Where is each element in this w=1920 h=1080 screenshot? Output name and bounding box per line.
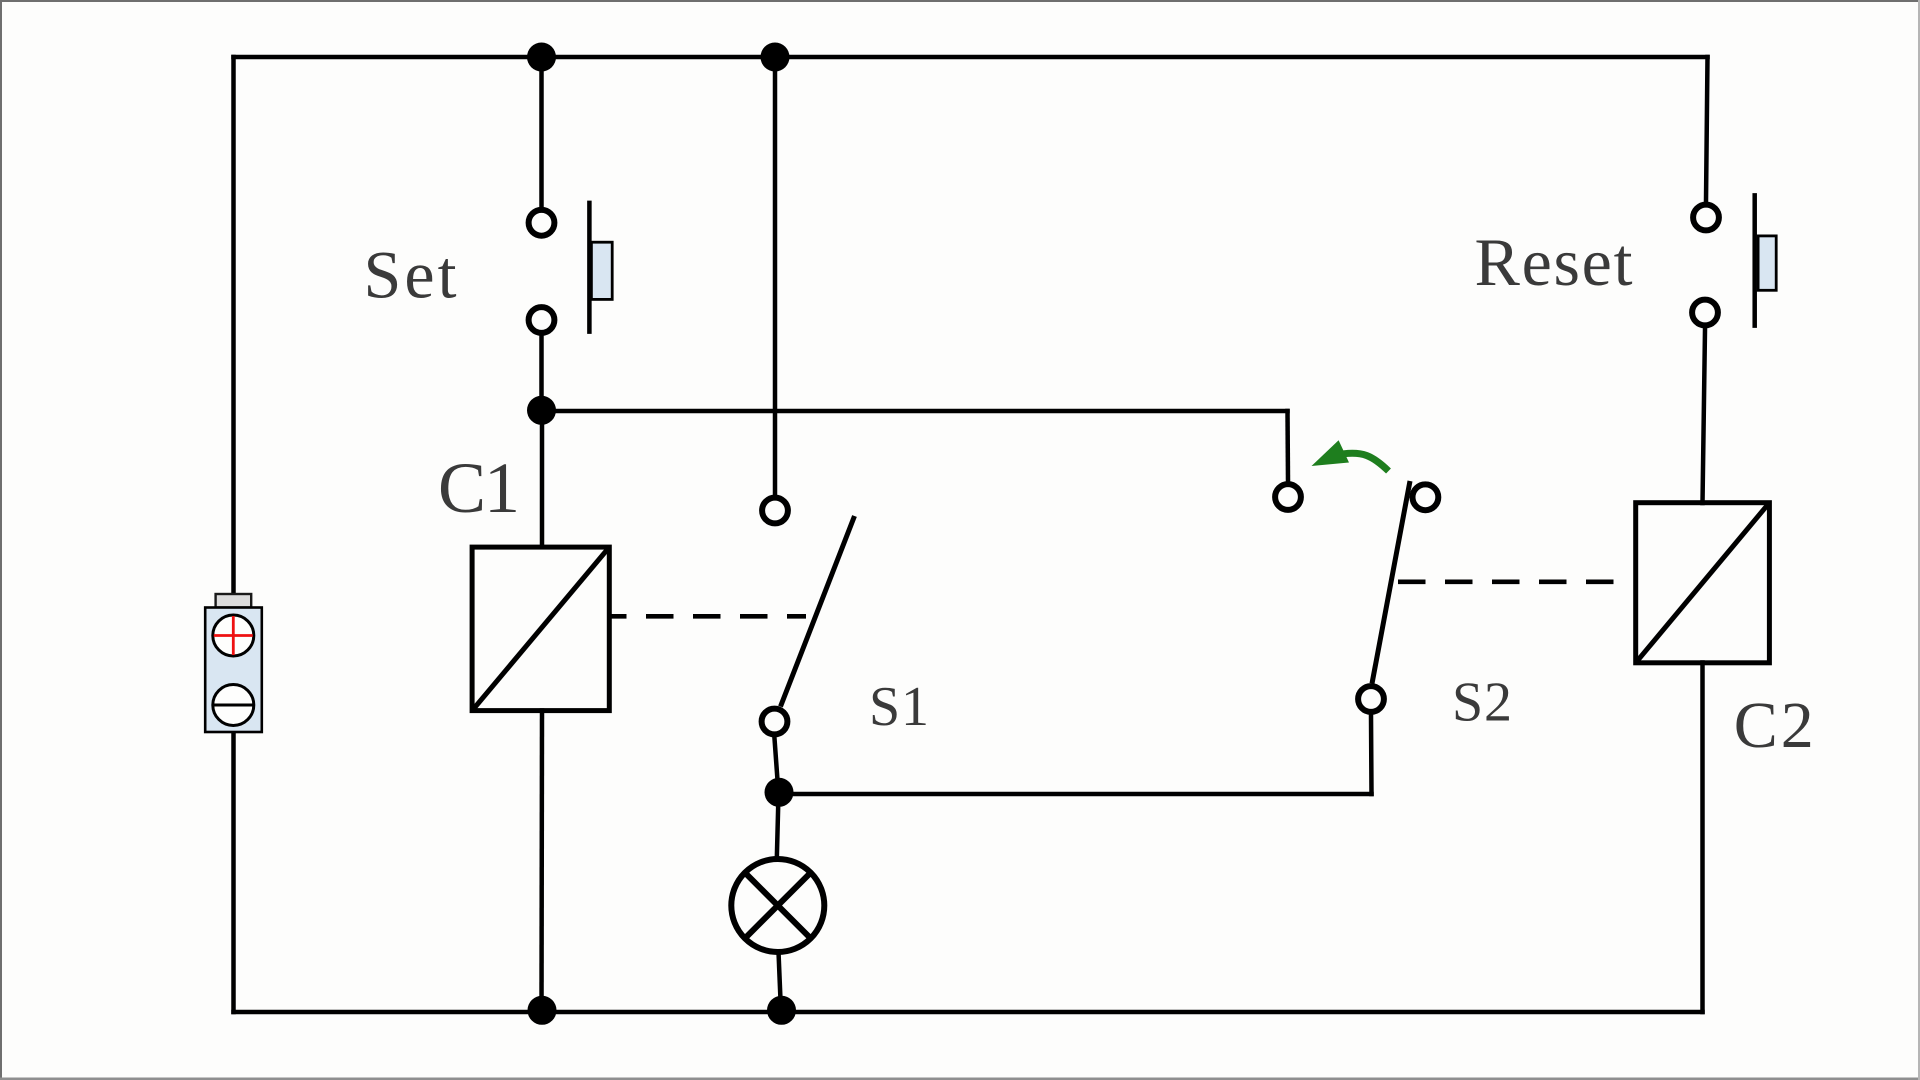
relay coil C2	[1636, 503, 1770, 663]
svg-text:S2: S2	[1452, 672, 1512, 734]
node bottom bus / C1	[528, 996, 557, 1025]
battery	[205, 594, 262, 732]
wire node row S1 to S2	[779, 792, 1372, 797]
Reset upper contact	[1693, 205, 1719, 231]
battery body	[205, 608, 262, 733]
wire S1 branch	[773, 57, 778, 494]
wire lamp to bottom bus	[779, 952, 782, 1012]
wire Set junction to C1	[540, 410, 545, 547]
wire right bus to Reset	[1706, 57, 1708, 201]
battery positive terminal	[213, 615, 254, 656]
wire C2 to bottom bus	[1700, 663, 1705, 1013]
node Set junction	[527, 396, 556, 425]
wire C1 to bottom bus	[539, 711, 544, 1013]
wire S2 pole drop	[1369, 716, 1374, 795]
wire Reset to C2	[1703, 330, 1706, 504]
Reset actuator bar	[1752, 193, 1757, 328]
wire Set junction to S2 throw	[542, 409, 1288, 414]
S2 left throw contact	[1275, 484, 1301, 510]
svg-text:Reset: Reset	[1475, 224, 1633, 300]
lamp cross	[746, 874, 810, 938]
wire bottom bus	[234, 1010, 1703, 1015]
mechanical link C1 to S1 (dashed)	[610, 614, 806, 619]
switch S2	[1275, 481, 1438, 712]
Set button cap	[591, 242, 612, 299]
S1 pole contact	[762, 709, 788, 735]
battery cap	[216, 594, 252, 608]
relay coil C1	[472, 547, 609, 711]
pushbutton Set	[529, 201, 613, 334]
battery negative terminal	[213, 685, 254, 726]
wire Set branch lower	[539, 337, 544, 410]
node bottom bus / lamp	[767, 996, 796, 1025]
S2 arm	[1372, 481, 1410, 684]
wire S2 throw drop	[1285, 411, 1290, 481]
green actuation arrow (S2 moves to left contact)	[1312, 440, 1389, 471]
svg-text:S1: S1	[869, 676, 929, 738]
Reset button cap	[1758, 236, 1776, 290]
Set lower contact	[529, 307, 555, 333]
S1 arm	[781, 516, 855, 707]
Set upper contact	[529, 210, 555, 236]
pushbutton Reset	[1692, 193, 1776, 328]
Reset lower contact	[1692, 300, 1718, 326]
svg-text:C2: C2	[1734, 689, 1814, 762]
wire Set branch upper	[539, 57, 544, 206]
svg-text:Set: Set	[364, 237, 457, 313]
S2 pole contact	[1358, 686, 1384, 712]
lamp bulb circle	[731, 859, 824, 952]
node top bus / S1 branch	[761, 43, 790, 72]
wire left bus upper	[231, 57, 236, 595]
switch S1	[762, 498, 855, 735]
node S1 pole junction	[765, 778, 794, 807]
Set actuator bar	[587, 201, 592, 334]
svg-text:C1: C1	[438, 448, 520, 528]
S1 throw contact	[762, 498, 788, 524]
wire node to lamp	[777, 794, 779, 859]
lamp	[731, 859, 824, 952]
node top bus / Set branch	[527, 43, 556, 72]
wire top bus	[234, 55, 1708, 60]
wire left bus lower	[231, 732, 236, 1012]
wire S1 pole to node	[775, 739, 779, 795]
S2 right throw contact	[1413, 484, 1439, 510]
mechanical link S2 to C2 (dashed)	[1398, 579, 1618, 584]
